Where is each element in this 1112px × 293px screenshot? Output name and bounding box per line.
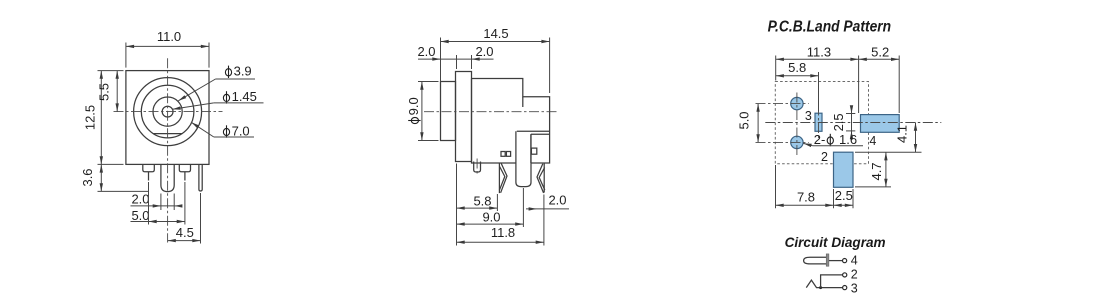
svg-text:2: 2 <box>821 150 828 164</box>
circuit junction dot <box>819 286 822 289</box>
svg-text:9.0: 9.0 <box>482 210 500 225</box>
svg-text:2.0: 2.0 <box>475 44 493 59</box>
front view horizontal centerline <box>114 111 223 113</box>
svg-text:5.0: 5.0 <box>131 208 149 223</box>
front view center pin circle dia 1.45 <box>162 106 173 117</box>
svg-text:5.8: 5.8 <box>473 194 491 209</box>
svg-text:2.5: 2.5 <box>835 188 853 203</box>
side view horizontal centerline <box>424 111 557 113</box>
side view inner edge rear <box>522 97 524 107</box>
svg-text:5.8: 5.8 <box>788 60 806 75</box>
side view pin slot top edge <box>517 130 550 132</box>
svg-text:2.0: 2.0 <box>417 44 435 59</box>
PCB hole 2 crosshair <box>756 141 809 143</box>
label dia 7.0 with leader <box>223 128 229 135</box>
front view vertical centerline <box>167 58 169 242</box>
svg-text:3.9: 3.9 <box>234 64 252 79</box>
front view center terminal pin <box>161 164 174 191</box>
svg-text:11.0: 11.0 <box>157 29 181 44</box>
circuit switch spring contact <box>806 280 842 288</box>
svg-text:12.5: 12.5 <box>83 105 98 130</box>
svg-text:2-: 2- <box>814 132 826 147</box>
svg-text:4: 4 <box>869 134 876 148</box>
side view rear block inner edge <box>531 133 550 135</box>
svg-text:Circuit Diagram: Circuit Diagram <box>785 235 886 250</box>
svg-text:7.0: 7.0 <box>232 123 250 138</box>
side view barrel nose <box>441 82 456 141</box>
PCB hole pad pin 2 <box>791 136 803 148</box>
front view right claw leg line <box>184 172 186 181</box>
svg-text:5.2: 5.2 <box>871 45 889 60</box>
PCB horizontal centerline <box>765 122 941 124</box>
svg-text:11.8: 11.8 <box>491 225 515 240</box>
front view right lug pin <box>179 164 190 171</box>
label dia 1.45 with leader <box>223 94 229 101</box>
wire to terminal 4 <box>829 260 843 262</box>
svg-text:2: 2 <box>851 268 858 282</box>
side view left claw leg <box>498 163 500 193</box>
circuit terminal 4 node <box>843 259 847 263</box>
svg-text:4.1: 4.1 <box>895 125 910 143</box>
svg-text:P.C.B.Land Pattern: P.C.B.Land Pattern <box>768 19 892 36</box>
side view center terminal pin <box>516 131 531 186</box>
side view main body outline <box>472 79 550 164</box>
side view right claw leg <box>543 164 545 193</box>
PCB hole 3 crosshair <box>756 103 809 105</box>
svg-text:4.5: 4.5 <box>176 225 194 240</box>
front view left lug pin <box>143 164 155 171</box>
circuit plug tip bar <box>826 254 829 266</box>
side view rear block left edge <box>530 134 532 163</box>
front view circle dia 7.0 <box>141 85 194 138</box>
svg-text:14.5: 14.5 <box>483 26 508 41</box>
svg-text:2.0: 2.0 <box>131 191 149 206</box>
front view left claw leg line <box>148 172 150 181</box>
front view chord flat <box>153 133 182 135</box>
wire to terminal 2 <box>821 275 843 288</box>
PCB pad pin 2 rectangle <box>834 152 854 187</box>
svg-text:3: 3 <box>805 109 812 123</box>
svg-text:5.5: 5.5 <box>97 83 112 101</box>
side view dimension extension lines <box>456 164 458 246</box>
svg-text:3.6: 3.6 <box>80 168 95 186</box>
side view twin slot holes <box>501 152 505 157</box>
side view mounting flange plate <box>456 72 472 162</box>
front view housing body <box>126 71 209 165</box>
svg-text:3: 3 <box>851 281 858 293</box>
PCB pad pin 3 rectangle <box>815 113 822 131</box>
svg-text:4.7: 4.7 <box>869 162 884 180</box>
side view tab centerline <box>476 159 478 176</box>
dimension dia 9.0 barrel <box>406 97 421 123</box>
svg-text:2.0: 2.0 <box>548 193 566 208</box>
svg-text:11.3: 11.3 <box>807 45 831 60</box>
svg-text:9.0: 9.0 <box>406 97 421 115</box>
PCB component dashed outline <box>775 82 868 164</box>
svg-text:2.5: 2.5 <box>831 113 846 131</box>
front view right thin pin <box>199 164 202 191</box>
label dia 3.9 with leader <box>225 69 231 76</box>
circuit terminal 3 node <box>843 286 847 290</box>
PCB pad pin 4 rectangle <box>861 115 900 133</box>
svg-text:7.8: 7.8 <box>797 189 815 204</box>
PCB vertical centerline through holes <box>796 93 798 156</box>
PCB hole pad pin 3 <box>791 97 803 109</box>
circuit terminal 2 node <box>843 273 847 277</box>
side view small square hole <box>531 148 536 154</box>
circuit plug barrel symbol <box>804 257 827 264</box>
PCB pad 3 centerline <box>818 106 820 140</box>
svg-text:1.45: 1.45 <box>232 89 257 104</box>
svg-text:4: 4 <box>851 253 858 267</box>
side view small tab pin <box>474 162 481 173</box>
front view circle dia 3.9 <box>153 97 182 126</box>
front view barrel outer circle <box>134 78 202 146</box>
svg-text:1.6: 1.6 <box>839 132 857 147</box>
svg-text:5.0: 5.0 <box>737 111 752 129</box>
